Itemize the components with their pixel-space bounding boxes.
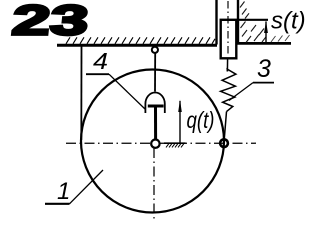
svg-text:q(t): q(t) bbox=[187, 107, 215, 133]
slot right guide line bbox=[237, 0, 239, 43]
slider in slot bbox=[221, 20, 237, 59]
svg-text:1: 1 bbox=[57, 178, 70, 205]
disk 1 bbox=[81, 70, 224, 213]
ceiling hatching left bbox=[66, 37, 215, 44]
s(t) arrow bbox=[264, 21, 268, 44]
ceiling right block bottom line bbox=[237, 42, 291, 45]
svg-text:23: 23 bbox=[10, 0, 91, 43]
svg-text:4: 4 bbox=[93, 48, 108, 74]
rod from pivot to damper bbox=[154, 53, 156, 92]
pin at disk center bbox=[151, 140, 159, 148]
problem number 23 bbox=[10, 0, 91, 43]
spring top lead bbox=[226, 58, 228, 72]
damper piston T bar bbox=[148, 105, 164, 108]
spring 3 bbox=[221, 69, 236, 112]
ceiling right block datum line bbox=[237, 19, 268, 21]
q(t) arrow bbox=[178, 100, 182, 143]
ceiling right block hatching bbox=[240, 2, 266, 43]
svg-text:3: 3 bbox=[257, 55, 271, 83]
pivot circle on ceiling bbox=[152, 47, 158, 53]
horizontal centerline bbox=[66, 142, 256, 144]
vertical centerline bbox=[153, 148, 155, 221]
spring bottom lead bbox=[224, 112, 226, 140]
left tangent support line bbox=[80, 46, 82, 140]
label 1 bbox=[45, 170, 103, 205]
damper cup (element 4) bbox=[145, 92, 164, 113]
ground mark for q reference bbox=[164, 143, 186, 147]
slider centerline bbox=[227, 1, 229, 56]
hatching right of arrow bbox=[271, 35, 290, 42]
label 4 bbox=[86, 48, 145, 109]
ceiling left slab bbox=[57, 44, 217, 47]
label 3 bbox=[229, 55, 274, 101]
svg-text:s(t): s(t) bbox=[271, 8, 306, 35]
node on rim bbox=[220, 139, 228, 147]
slot left guide line bbox=[215, 0, 217, 45]
damper piston stem bbox=[154, 107, 157, 139]
